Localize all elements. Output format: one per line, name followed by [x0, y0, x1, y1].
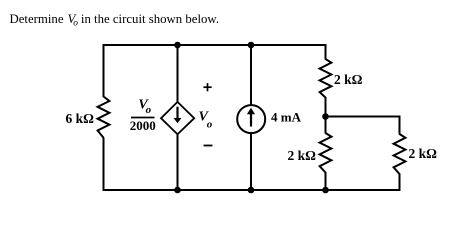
wire: current source branch lower [250, 133, 252, 191]
svg-text:2000: 2000 [130, 118, 156, 133]
svg-text:6 kΩ: 6 kΩ [66, 111, 95, 126]
wire: dependent source branch upper [177, 45, 179, 103]
svg-text:in the circuit shown below.: in the circuit shown below. [81, 12, 219, 26]
svg-text:o: o [146, 104, 152, 116]
svg-text:Determine: Determine [10, 12, 64, 26]
resistor R 6k [98, 97, 110, 138]
label plus sign [203, 83, 211, 91]
wire: node A to far right branch [326, 116, 400, 118]
svg-text:2 kΩ: 2 kΩ [288, 148, 317, 163]
wire: top rail [104, 44, 326, 46]
label minus sign [204, 145, 213, 147]
current source arrow (up) [247, 108, 255, 127]
wire: bottom rail [104, 189, 400, 191]
dependent source arrow (down) [174, 107, 182, 124]
svg-text:2 kΩ: 2 kΩ [334, 72, 363, 87]
node dot: dep source bottom [174, 187, 181, 194]
wire: dependent source branch lower [177, 134, 179, 191]
node dot: dep source top [174, 42, 181, 49]
node dot: right branch bottom [322, 187, 329, 194]
wire: right branch top segment [325, 45, 327, 60]
wire: far right branch upper [399, 117, 401, 135]
wire: right branch middle segment [325, 97, 327, 134]
wire: left branch lower [103, 138, 105, 191]
node dot: current source top [248, 42, 255, 49]
wire: far right branch lower [399, 174, 401, 191]
svg-text:4 mA: 4 mA [271, 109, 302, 124]
node dot: node A [322, 113, 329, 120]
wire: left branch upper [103, 45, 105, 97]
dependent source U1 diamond [161, 102, 194, 134]
node dot: current source bottom [248, 187, 255, 194]
resistor R 2k top [320, 59, 332, 98]
title text [10, 12, 220, 29]
label Vo/2000 fraction [130, 98, 156, 133]
current source I1 circle [237, 105, 265, 133]
resistor R 2k right [394, 134, 406, 174]
label Vo across source [199, 110, 213, 131]
svg-text:o: o [73, 19, 78, 29]
wire: current source branch upper [250, 45, 252, 106]
wire: right branch bottom segment [325, 172, 327, 190]
resistor R 2k middle [320, 133, 332, 173]
svg-text:2 kΩ: 2 kΩ [409, 146, 438, 161]
svg-text:o: o [207, 119, 213, 131]
